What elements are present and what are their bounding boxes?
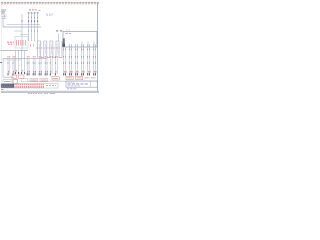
terminal ticks on module wires [29,17,38,32]
module U1 terminal squares [28,12,39,14]
junction block at meander/box corner [63,38,65,44]
divider line above title block [28,80,98,82]
red linkage dashed line [36,47,62,49]
wires K1 group below rail [16,58,25,72]
top-left legend block [1,10,6,12]
wires K1 to rail [16,51,25,59]
sheet left border [0,3,2,92]
tall pins inside A1 [82,42,94,48]
sheet right border [97,3,99,92]
rail wire y58.3 [3,57,47,59]
red tag box bottom-left [13,80,18,84]
pin ticks inside A1 [70,44,96,47]
sheet bottom border [1,90,99,92]
red cable labels left [12,75,24,78]
terminal tick on x22 wire [21,20,23,22]
wires from module U1 [29,14,38,41]
title block sub text [67,88,77,90]
red connector label boxes row [22,76,83,82]
wire L1 elbow [3,18,41,28]
terminal strip X1 dark segment [1,84,14,88]
cable pair drops: left group [8,58,15,74]
breaker meander F1 [38,41,62,58]
wire bus y50.5 [1,50,29,52]
red label for K1 [7,41,14,43]
terminal strip X1 red hatched segment [14,84,44,88]
rail wire second [3,59,22,61]
terminal ticks under A1 [64,49,96,51]
connector pins at drop bottoms [8,73,97,75]
wire left elbow down [3,58,14,77]
wires into A1 top [67,29,69,31]
strip X1 outline [1,84,58,88]
red contact ticks inside K1 [16,40,25,46]
connector pins K1 group bottoms [15,72,25,74]
wire bus upper [7,24,40,26]
PLC box A1 [63,32,97,48]
top reference dashed row [1,2,99,4]
dark component inside A1 [62,44,65,47]
red corner mark [1,89,3,91]
wire into meander right [58,34,60,42]
relay group box K1 [15,37,28,49]
wire stub into K1 [20,33,28,35]
terminal ticks mid-height on drops [8,62,95,64]
cable pair drops: right groups from A1 [64,47,96,74]
border tick [0,62,2,64]
title block table [66,81,98,87]
A1 inner label [66,33,72,35]
footer text [28,93,42,95]
legend box bottom-left [3,80,12,84]
small gray text top middle [46,13,53,15]
red wire-number ticks above rail [8,56,95,58]
red text right of strip [46,85,56,87]
module U1 label (red text) [29,9,37,11]
hatch band mid gap [14,85,44,87]
label -K near PLC box [56,30,58,32]
red wire labels near module wires [31,44,34,46]
cable pair drops: middle groups [27,58,57,74]
red wire-number specks above connectors [9,70,96,73]
wire to node x22 [14,14,22,51]
